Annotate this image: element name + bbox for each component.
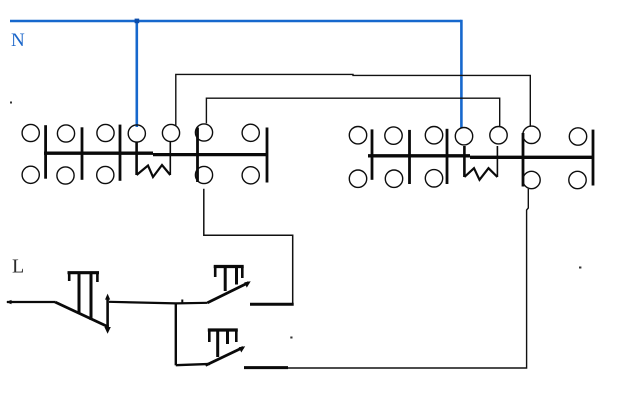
switch S1 pole bar arrow up bbox=[105, 294, 110, 300]
switch S2 plate left bbox=[224, 268, 227, 291]
fixture 1 tick 2 bbox=[81, 127, 84, 180]
fixture 1 terminal 6 top bbox=[195, 124, 212, 141]
lamp 2 filament lead right bbox=[496, 146, 498, 177]
switch S2 cap hook right bbox=[241, 267, 244, 279]
switch S1 plate left bbox=[78, 274, 81, 313]
wire C: fixture1 terminal6 bottom to switch S2 output bbox=[204, 189, 293, 304]
fixture 1 terminal 6 bottom bbox=[195, 166, 212, 183]
fixture 1 tick 5 bbox=[266, 128, 269, 183]
junction tick bbox=[181, 300, 183, 305]
wire junction drop bbox=[175, 303, 177, 365]
fixture 1 tick 1 bbox=[44, 125, 47, 179]
fixture 2 terminal 6 top bbox=[523, 126, 540, 143]
fixture 1 terminal 4 top bbox=[128, 125, 145, 142]
fixture 1 terminal 1 bottom bbox=[22, 166, 39, 183]
svg-text:L: L bbox=[12, 256, 24, 278]
fixture 2 terminal 4 top bbox=[455, 128, 472, 145]
fixture 1 tick 3 bbox=[119, 125, 122, 181]
fixture 1 terminal 7 top bbox=[242, 124, 259, 141]
switch S2 cap hook left bbox=[214, 267, 217, 278]
fixture 2 terminal bus bbox=[368, 156, 593, 158]
fixture 1 terminal 3 top bbox=[97, 124, 114, 141]
arrow at L feed start bbox=[6, 300, 12, 304]
lamp 1 filament lead right bbox=[169, 142, 171, 175]
switch S1 cap hook right bbox=[96, 273, 99, 282]
wire N drop to fixture 1 terminal 4 bbox=[136, 20, 139, 127]
fixture 2 terminal 1 bottom bbox=[349, 170, 366, 187]
fixture 2 terminal 1 top bbox=[349, 127, 366, 144]
fixture 1 terminal 1 top bbox=[22, 124, 39, 141]
fixture 1 terminal 5 top bbox=[162, 124, 179, 141]
wire neutral N bus (blue horizontal) bbox=[10, 20, 461, 22]
switch S3 cap bbox=[208, 328, 238, 331]
lamp 2 filament zigzag bbox=[464, 168, 497, 180]
fixture 2 terminal 2 top bbox=[385, 127, 402, 144]
fixture 2 tick 4 bbox=[522, 133, 525, 187]
switch S2 plate right bbox=[235, 268, 238, 285]
wire junction to S3 blade bbox=[176, 364, 210, 365]
wire N drop to fixture 2 terminal 4 bbox=[460, 20, 463, 129]
fixture 2 tick 1 bbox=[371, 129, 374, 179]
stray dot right bbox=[579, 267, 581, 269]
switch S1 pole bar arrow down bbox=[104, 327, 110, 334]
switch S1 pole bar bbox=[106, 297, 109, 329]
switch S3 blade bbox=[206, 347, 244, 365]
wire S1 output to junction and S2 bbox=[109, 302, 208, 304]
junction blob on N bus bbox=[135, 19, 140, 24]
switch S1 cap bbox=[68, 271, 100, 274]
switch S2 cap bbox=[214, 265, 244, 268]
switch S3 plate left bbox=[216, 332, 219, 358]
fixture 2 terminal 7 top bbox=[569, 128, 586, 145]
switch S1 blade bbox=[55, 302, 109, 327]
switch S3 output stub bbox=[244, 366, 288, 369]
fixture 2 tick 5 bbox=[592, 130, 595, 186]
lamp 1 filament lead left bbox=[135, 142, 138, 175]
fixture 1 terminal 2 top bbox=[57, 125, 74, 142]
lamp 2 filament lead left bbox=[463, 146, 466, 177]
fixture 1 terminal bus bbox=[44, 153, 268, 154]
switch S3 cap hook left bbox=[208, 330, 211, 342]
stray dot near S3 bbox=[290, 337, 292, 339]
fixture 2 terminal 5 top bbox=[490, 127, 507, 144]
switch S2 output stub bbox=[250, 303, 294, 306]
fixture 2 terminal 2 bottom bbox=[385, 170, 402, 187]
fixture 1 terminal 7 bottom bbox=[242, 167, 259, 184]
switch S1 cap hook left bbox=[68, 273, 71, 281]
lamp 1 filament zigzag bbox=[137, 165, 171, 177]
switch S3 blade arrow bbox=[239, 346, 246, 352]
fixture 2 terminal 7 bottom bbox=[569, 171, 586, 188]
fixture 1 tick 4 bbox=[196, 128, 199, 183]
wire D: switch S3 output to fixture2 terminal6 bottom bbox=[288, 189, 528, 368]
fixture 2 tick 3 bbox=[446, 129, 449, 184]
svg-text:N: N bbox=[11, 30, 25, 51]
switch S2 blade arrow bbox=[244, 281, 251, 287]
switch S2 blade bbox=[208, 283, 249, 303]
wire B: fixture1 terminal6 top to fixture2 terminal5 top bbox=[206, 98, 499, 126]
wire A: fixture1 terminal5 top to fixture2 terminal6 top bbox=[176, 74, 531, 126]
switch S3 plate right bbox=[226, 332, 229, 345]
fixture 2 terminal 3 bottom bbox=[425, 170, 442, 187]
switch S3 cap hook right bbox=[235, 330, 238, 342]
fixture 2 terminal 6 bottom bbox=[523, 171, 540, 188]
fixture 2 tick 2 bbox=[408, 130, 411, 184]
switch S1 plate right bbox=[90, 274, 93, 320]
stray dot top left bbox=[10, 102, 12, 104]
fixture 2 terminal 3 top bbox=[425, 127, 442, 144]
fixture 1 terminal 2 bottom bbox=[57, 167, 74, 184]
fixture 1 terminal 3 bottom bbox=[97, 166, 114, 183]
wire L feed into switch S1 bbox=[7, 301, 55, 303]
